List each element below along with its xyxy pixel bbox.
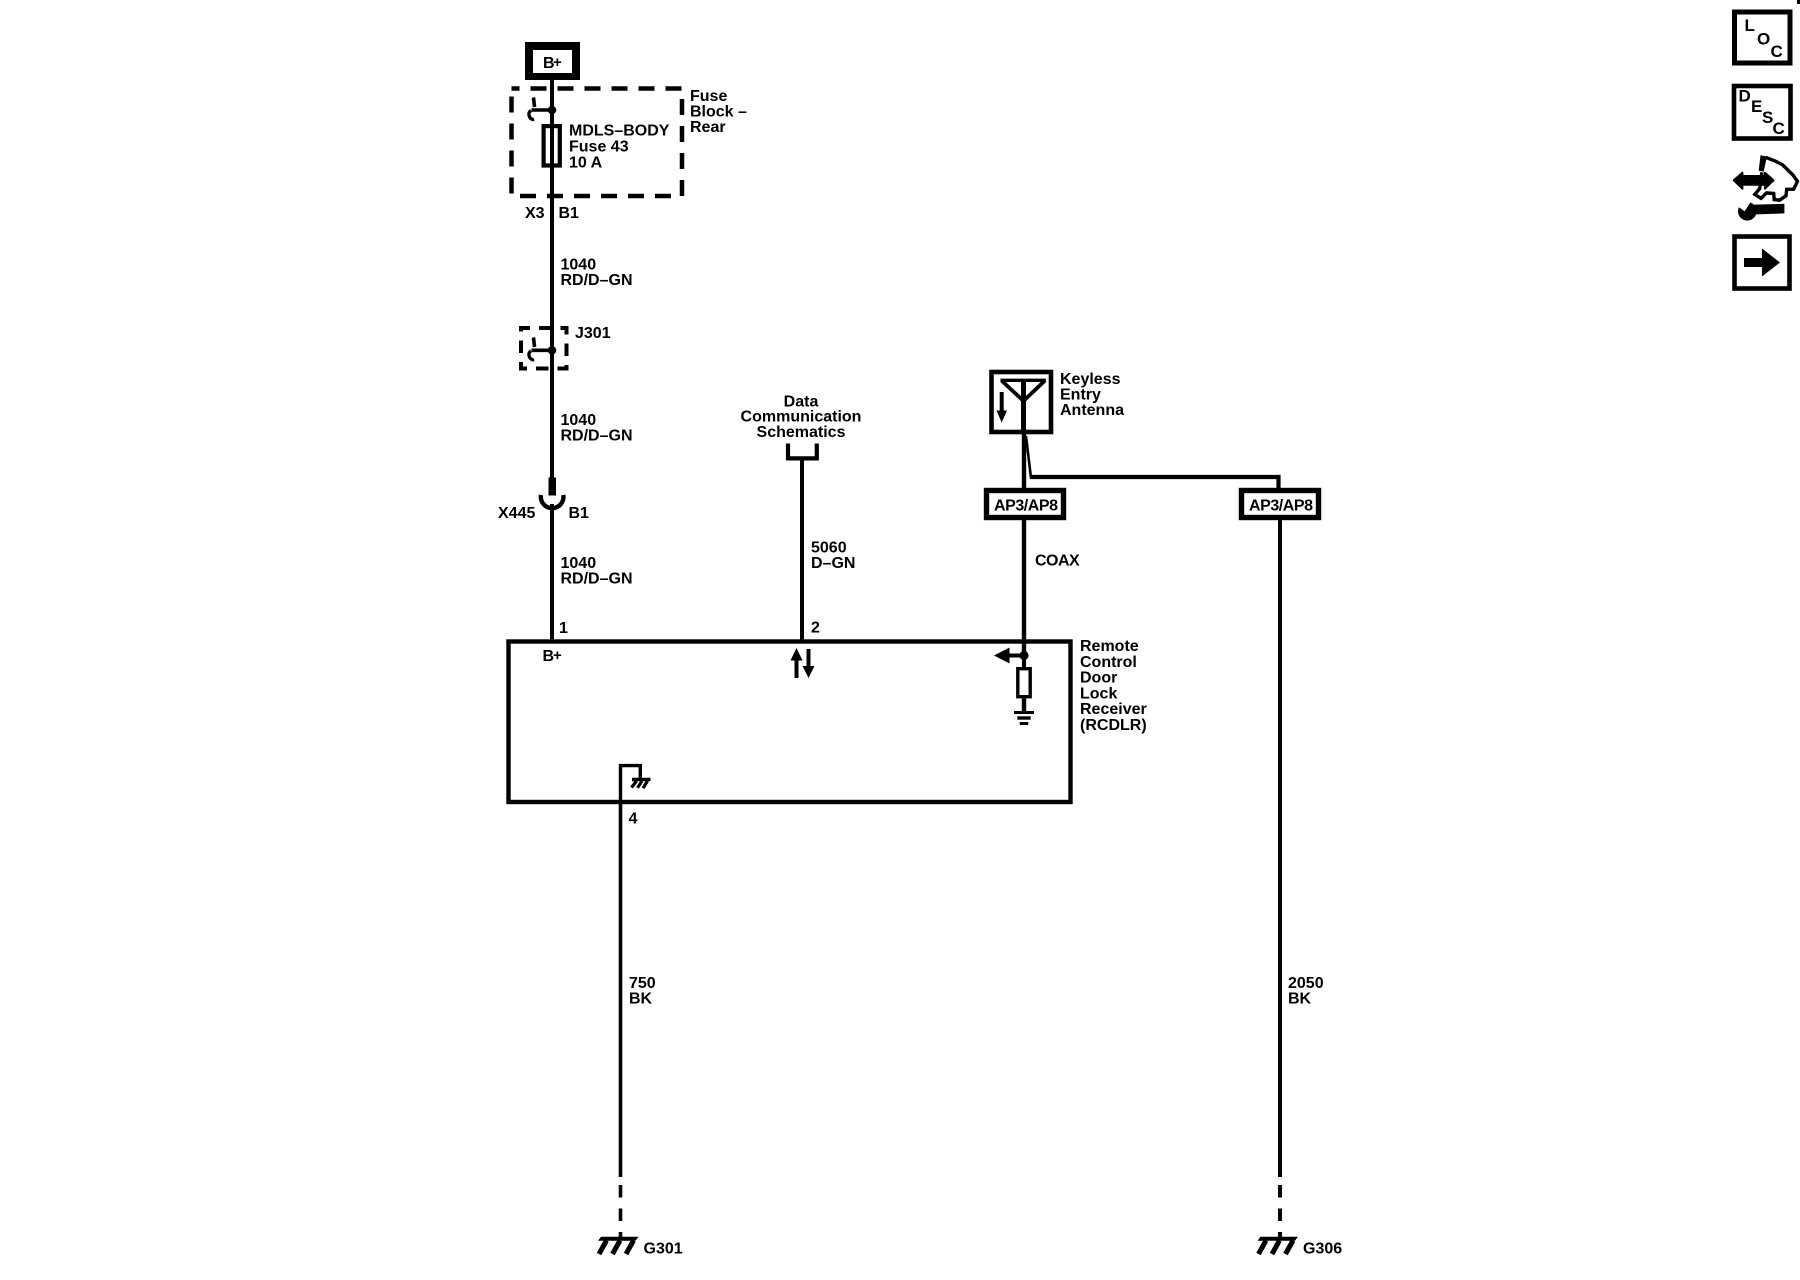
wire label 1040 RD/D-GN (upper) (561, 257, 633, 290)
svg-text:Door: Door (1080, 670, 1117, 687)
coax branch diagonal (1026, 436, 1031, 478)
svg-text:C: C (1771, 42, 1783, 61)
ground symbol G301 (598, 1237, 639, 1254)
corner mark (1797, 0, 1800, 4)
svg-text:1: 1 (559, 620, 568, 637)
icon harness repair (double arrow, outline, wrench) (1734, 155, 1798, 220)
svg-text:Receiver: Receiver (1080, 701, 1147, 718)
wire antenna to AP3/AP8 (1022, 434, 1026, 489)
wire 2050 BK solid (1278, 518, 1282, 1177)
svg-text:B1: B1 (569, 505, 590, 522)
connector X445 male/female terminals (541, 478, 564, 509)
svg-text:G306: G306 (1303, 1241, 1342, 1258)
label Fuse Block - Rear (690, 88, 747, 136)
icon LOC box (1735, 12, 1791, 63)
keyless entry antenna box (992, 372, 1052, 434)
svg-text:2: 2 (811, 620, 820, 637)
svg-text:Lock: Lock (1080, 685, 1117, 702)
wire 1040 RD/D-GN from X445 to RCDLR (550, 504, 554, 641)
coax termination: junction, arrow, resistor, ground (994, 648, 1034, 726)
bidirectional arrows at pin 2 (791, 648, 815, 678)
svg-text:Block –: Block – (690, 104, 747, 121)
svg-text:(RCDLR): (RCDLR) (1080, 717, 1147, 734)
svg-text:Control: Control (1080, 654, 1137, 671)
svg-text:G301: G301 (644, 1241, 683, 1258)
svg-text:RD/D–GN: RD/D–GN (561, 571, 633, 588)
wire 2050 BK dashed (1278, 1185, 1282, 1238)
svg-text:Rear: Rear (690, 119, 726, 136)
svg-text:E: E (1751, 97, 1762, 116)
svg-text:4: 4 (629, 811, 638, 828)
svg-text:COAX: COAX (1035, 553, 1080, 570)
icon DESC box (1734, 86, 1791, 139)
svg-text:D–GN: D–GN (811, 555, 855, 572)
svg-text:1040: 1040 (561, 412, 597, 429)
svg-text:D: D (1739, 87, 1751, 106)
svg-text:C: C (1773, 119, 1785, 138)
svg-text:J301: J301 (575, 325, 611, 342)
svg-text:1040: 1040 (561, 257, 597, 274)
svg-text:MDLS–BODY: MDLS–BODY (569, 123, 670, 140)
pin labels X3 / B1 at fuse block (525, 205, 579, 222)
wire label 5060 D-GN (811, 539, 855, 572)
svg-text:10 A: 10 A (569, 155, 603, 172)
svg-text:Antenna: Antenna (1060, 402, 1124, 419)
svg-text:BK: BK (1288, 991, 1312, 1008)
svg-text:5060: 5060 (811, 539, 847, 556)
wire 750 BK solid (619, 803, 623, 1177)
svg-text:+: + (553, 54, 562, 71)
svg-text:L: L (1745, 16, 1755, 35)
svg-text:RD/D–GN: RD/D–GN (561, 272, 633, 289)
svg-text:O: O (1757, 30, 1770, 49)
svg-text:Fuse: Fuse (690, 88, 727, 105)
wire 5060 D-GN (800, 458, 804, 641)
label B+ inside RCDLR (543, 647, 563, 665)
splice J301 dashed box (521, 328, 567, 369)
coax wire into RCDLR (1022, 518, 1026, 655)
labels X445 / B1 (498, 505, 589, 522)
icon arrow box (1735, 237, 1790, 289)
svg-text:AP3/AP8: AP3/AP8 (994, 498, 1058, 515)
svg-text:BK: BK (629, 991, 653, 1008)
fuse MDLS-BODY Fuse 43 10 A (544, 123, 670, 172)
svg-text:Fuse 43: Fuse 43 (569, 139, 629, 156)
ground symbol G306 (1258, 1237, 1299, 1254)
wire label 2050 BK (1288, 975, 1324, 1008)
wire 1040 RD/D-GN from B+ to X445 (550, 80, 554, 478)
connector AP3/AP8 (right) (1242, 491, 1319, 518)
svg-text:RD/D–GN: RD/D–GN (561, 428, 633, 445)
svg-text:X445: X445 (498, 505, 535, 522)
horizontal wire to right AP3/AP8 (1030, 477, 1279, 489)
svg-text:750: 750 (629, 975, 656, 992)
connector AP3/AP8 (left) (987, 491, 1064, 518)
svg-text:B1: B1 (559, 205, 580, 222)
label Keyless Entry Antenna (1060, 371, 1124, 419)
wire label 1040 RD/D-GN (lower) (561, 555, 633, 588)
splice clip J301 (529, 338, 556, 360)
svg-text:2050: 2050 (1288, 975, 1324, 992)
svg-text:Remote: Remote (1080, 638, 1139, 655)
power symbol B+ (525, 42, 580, 80)
wire 750 BK dashed (619, 1185, 623, 1238)
off-page connector Data Communication Schematics (741, 393, 862, 458)
RCDLR box (509, 642, 1071, 803)
svg-text:1040: 1040 (561, 555, 597, 572)
wire label 750 BK (629, 975, 656, 1008)
label Remote Control Door Lock Receiver (RCDLR) (1080, 638, 1147, 734)
wire label 1040 RD/D-GN (middle) (561, 412, 633, 445)
svg-text:+: + (553, 647, 562, 664)
svg-text:AP3/AP8: AP3/AP8 (1249, 498, 1313, 515)
fuse block dashed box (512, 89, 683, 197)
svg-text:X3: X3 (525, 205, 545, 222)
internal ground bracket pin 4 (621, 766, 651, 800)
fuse block female terminal clip (529, 98, 556, 120)
svg-text:Schematics: Schematics (757, 424, 846, 441)
